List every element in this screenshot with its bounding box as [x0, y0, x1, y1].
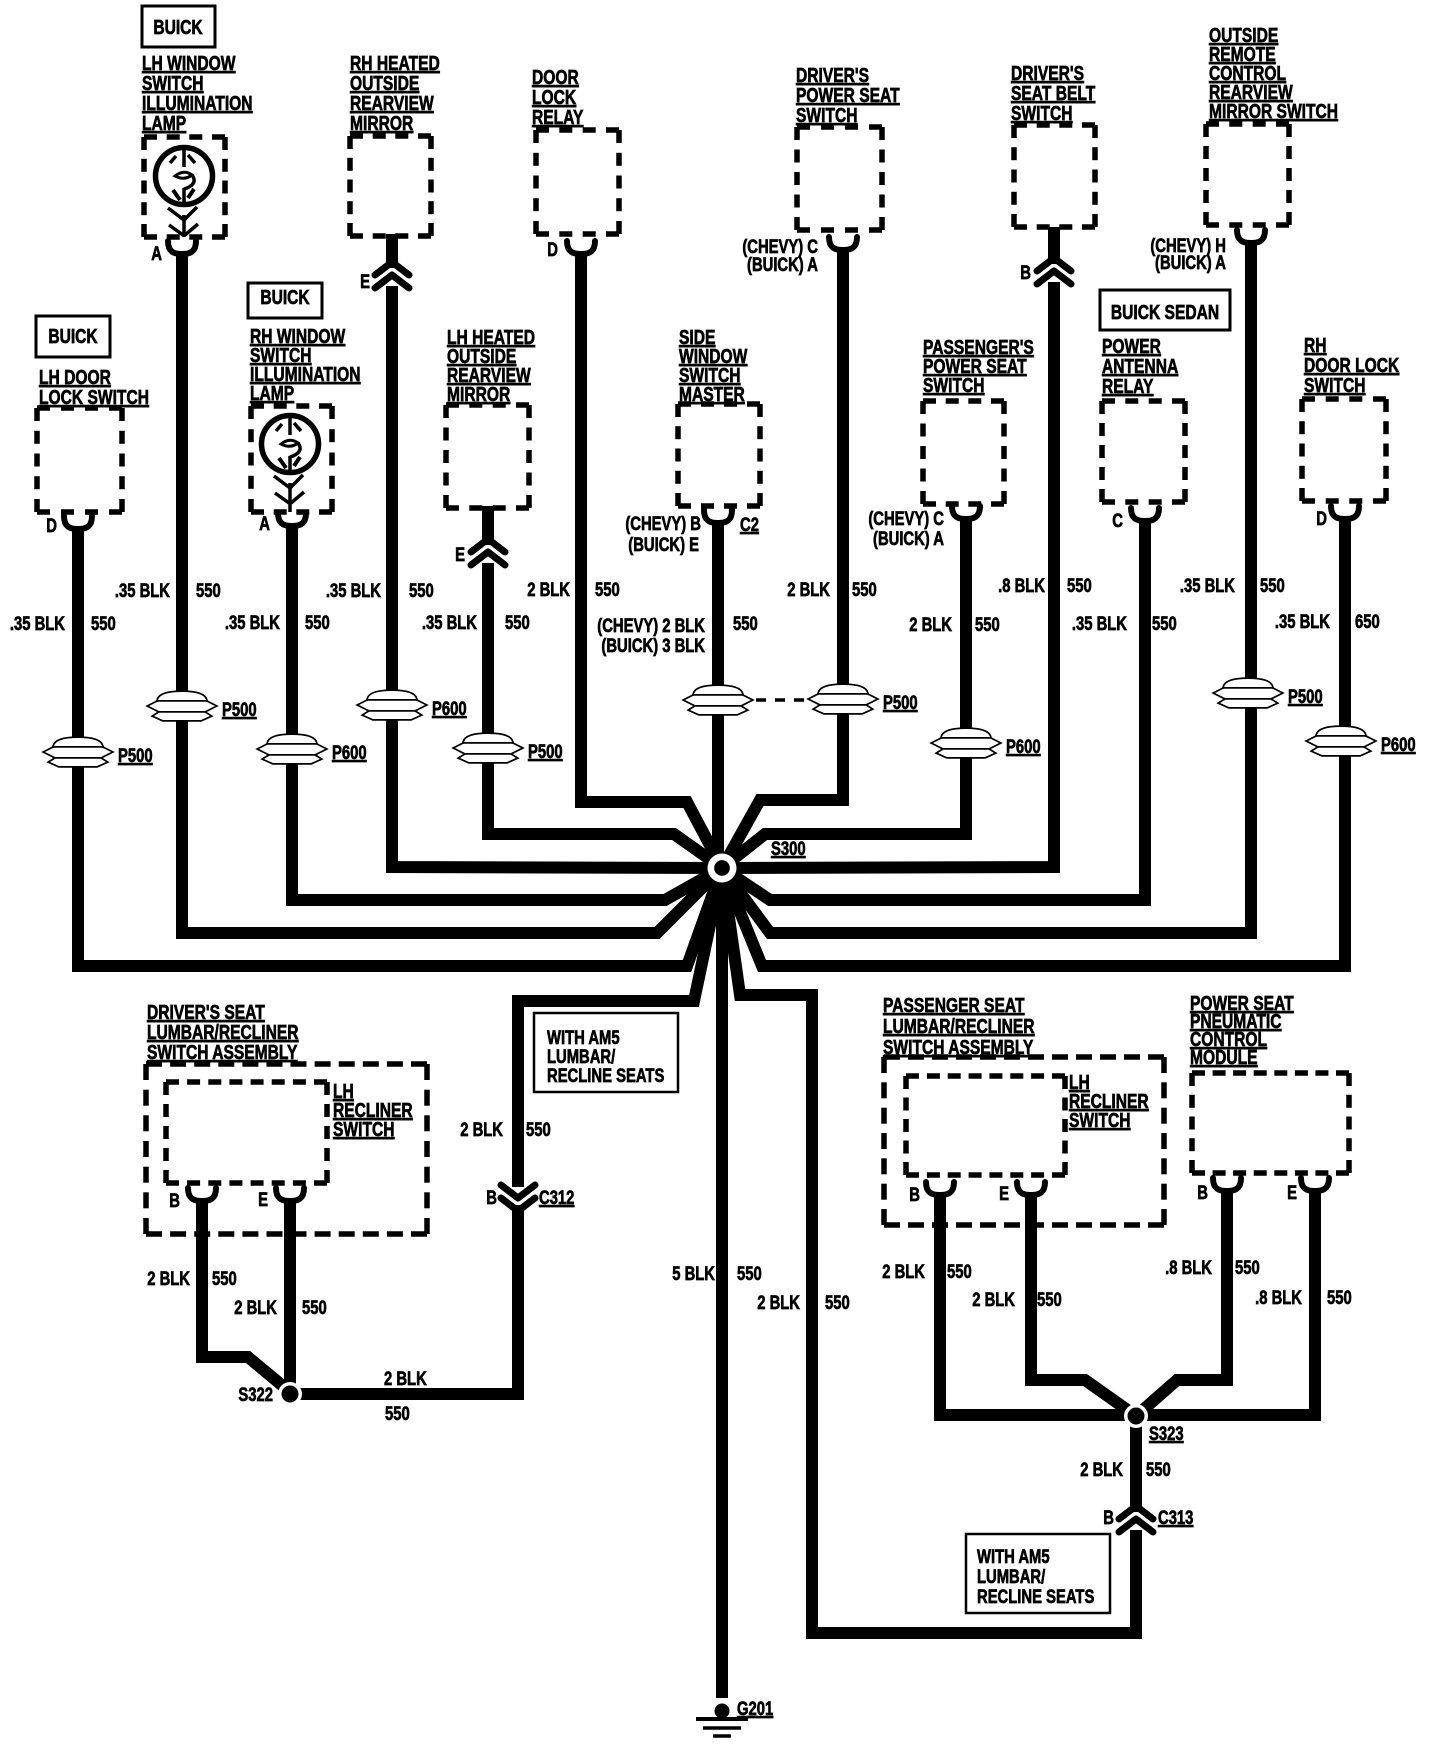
- svg-text:P500: P500: [1288, 686, 1323, 707]
- svg-text:550: 550: [91, 613, 116, 634]
- svg-text:RH: RH: [1304, 334, 1327, 356]
- svg-text:P600: P600: [1381, 734, 1416, 755]
- svg-text:P500: P500: [222, 699, 257, 720]
- svg-text:WITH AM5: WITH AM5: [977, 1546, 1050, 1567]
- svg-text:550: 550: [947, 1261, 972, 1282]
- svg-text:.35 BLK: .35 BLK: [10, 613, 66, 634]
- svg-text:C2: C2: [740, 514, 759, 535]
- svg-text:RECLINE SEATS: RECLINE SEATS: [977, 1586, 1094, 1607]
- svg-text:(BUICK) 3 BLK: (BUICK) 3 BLK: [601, 635, 705, 656]
- svg-text:DRIVER'S: DRIVER'S: [796, 64, 869, 86]
- svg-text:MIRROR: MIRROR: [350, 112, 413, 134]
- svg-text:2 BLK: 2 BLK: [972, 1289, 1015, 1310]
- svg-text:LH DOOR: LH DOOR: [39, 366, 111, 388]
- svg-text:2 BLK: 2 BLK: [882, 1261, 925, 1282]
- svg-text:A: A: [259, 513, 270, 534]
- svg-text:.35 BLK: .35 BLK: [1275, 611, 1331, 632]
- svg-text:A: A: [151, 243, 162, 264]
- svg-text:LAMP: LAMP: [142, 112, 186, 134]
- svg-text:BUICK: BUICK: [153, 16, 202, 38]
- svg-text:550: 550: [1260, 575, 1285, 596]
- svg-text:C: C: [1112, 510, 1123, 531]
- svg-text:B: B: [1020, 262, 1031, 283]
- svg-text:B: B: [909, 1184, 920, 1205]
- svg-text:DRIVER'S SEAT: DRIVER'S SEAT: [147, 1001, 265, 1023]
- svg-text:550: 550: [1152, 613, 1177, 634]
- svg-text:OUTSIDE: OUTSIDE: [350, 72, 419, 94]
- svg-text:MASTER: MASTER: [679, 383, 745, 405]
- svg-text:E: E: [258, 1189, 268, 1210]
- svg-text:SWITCH: SWITCH: [1069, 1109, 1130, 1131]
- svg-text:P600: P600: [332, 742, 367, 763]
- svg-text:BUICK: BUICK: [260, 286, 309, 308]
- svg-text:B: B: [1103, 1507, 1114, 1528]
- svg-text:POWER: POWER: [1102, 335, 1161, 357]
- svg-text:BUICK: BUICK: [48, 325, 97, 347]
- svg-text:2 BLK: 2 BLK: [460, 1119, 503, 1140]
- svg-text:E: E: [455, 544, 465, 565]
- svg-text:2 BLK: 2 BLK: [1080, 1459, 1123, 1480]
- svg-text:S300: S300: [771, 838, 806, 859]
- svg-text:D: D: [547, 239, 558, 260]
- svg-text:.8 BLK: .8 BLK: [1165, 1257, 1212, 1278]
- svg-text:.35 BLK: .35 BLK: [115, 580, 171, 601]
- svg-text:550: 550: [825, 1292, 850, 1313]
- svg-text:LUMBAR/RECLINER: LUMBAR/RECLINER: [147, 1021, 299, 1043]
- svg-text:2 BLK: 2 BLK: [234, 1297, 277, 1318]
- svg-text:550: 550: [1037, 1289, 1062, 1310]
- svg-text:550: 550: [305, 612, 330, 633]
- svg-text:550: 550: [737, 1263, 762, 1284]
- svg-text:(CHEVY) 2 BLK: (CHEVY) 2 BLK: [597, 615, 705, 636]
- svg-text:D: D: [46, 515, 57, 536]
- svg-text:550: 550: [1146, 1459, 1171, 1480]
- svg-text:SWITCH: SWITCH: [796, 104, 857, 126]
- svg-text:P500: P500: [528, 741, 563, 762]
- svg-text:550: 550: [1067, 575, 1092, 596]
- svg-text:SWITCH: SWITCH: [923, 374, 984, 396]
- svg-text:2 BLK: 2 BLK: [147, 1268, 190, 1289]
- svg-text:S322: S322: [238, 1384, 273, 1405]
- svg-text:550: 550: [595, 579, 620, 600]
- svg-text:PASSENGER SEAT: PASSENGER SEAT: [883, 994, 1025, 1016]
- svg-text:(BUICK) A: (BUICK) A: [873, 528, 944, 549]
- svg-text:550: 550: [1235, 1257, 1260, 1278]
- svg-text:2 BLK: 2 BLK: [757, 1292, 800, 1313]
- svg-text:DRIVER'S: DRIVER'S: [1011, 62, 1084, 84]
- svg-text:B: B: [1197, 1182, 1208, 1203]
- svg-text:REARVIEW: REARVIEW: [350, 92, 434, 114]
- svg-text:550: 550: [526, 1119, 551, 1140]
- svg-text:B: B: [486, 1187, 497, 1208]
- svg-text:SWITCH ASSEMBLY: SWITCH ASSEMBLY: [883, 1036, 1033, 1058]
- svg-text:SWITCH: SWITCH: [1011, 102, 1072, 124]
- svg-text:SWITCH: SWITCH: [333, 1118, 394, 1140]
- svg-text:(CHEVY) C: (CHEVY) C: [868, 508, 944, 529]
- svg-text:MIRROR: MIRROR: [447, 383, 510, 405]
- svg-text:MIRROR SWITCH: MIRROR SWITCH: [1209, 100, 1338, 122]
- svg-text:550: 550: [409, 580, 434, 601]
- svg-text:P500: P500: [883, 692, 918, 713]
- svg-text:550: 550: [1327, 1287, 1352, 1308]
- svg-text:E: E: [360, 271, 370, 292]
- svg-text:ILLUMINATION: ILLUMINATION: [142, 92, 253, 114]
- svg-text:SWITCH: SWITCH: [1304, 374, 1365, 396]
- svg-text:(BUICK) E: (BUICK) E: [628, 534, 699, 555]
- svg-text:E: E: [1287, 1182, 1297, 1203]
- svg-text:E: E: [999, 1183, 1009, 1204]
- svg-text:.35 BLK: .35 BLK: [225, 612, 281, 633]
- svg-text:650: 650: [1355, 611, 1380, 632]
- svg-text:(CHEVY) B: (CHEVY) B: [625, 513, 701, 534]
- svg-text:5 BLK: 5 BLK: [672, 1263, 715, 1284]
- svg-text:SEAT BELT: SEAT BELT: [1011, 82, 1095, 104]
- svg-text:550: 550: [975, 614, 1000, 635]
- svg-text:.35 BLK: .35 BLK: [422, 612, 478, 633]
- svg-text:RH HEATED: RH HEATED: [350, 52, 440, 74]
- svg-text:LUMBAR/: LUMBAR/: [977, 1566, 1045, 1587]
- svg-text:LUMBAR/RECLINER: LUMBAR/RECLINER: [883, 1015, 1035, 1037]
- svg-text:SWITCH ASSEMBLY: SWITCH ASSEMBLY: [147, 1041, 297, 1063]
- svg-text:RELAY: RELAY: [532, 106, 583, 128]
- svg-text:LOCK: LOCK: [532, 86, 576, 108]
- svg-text:G201: G201: [737, 1698, 773, 1719]
- svg-text:550: 550: [302, 1297, 327, 1318]
- svg-text:DOOR LOCK: DOOR LOCK: [1304, 354, 1399, 376]
- svg-text:(BUICK) A: (BUICK) A: [1155, 252, 1226, 273]
- svg-text:SWITCH: SWITCH: [142, 72, 203, 94]
- svg-text:550: 550: [212, 1268, 237, 1289]
- svg-text:.35 BLK: .35 BLK: [1180, 575, 1236, 596]
- svg-text:.8 BLK: .8 BLK: [1255, 1287, 1302, 1308]
- svg-text:.35 BLK: .35 BLK: [1072, 613, 1128, 634]
- svg-text:550: 550: [733, 613, 758, 634]
- svg-text:LH WINDOW: LH WINDOW: [142, 52, 236, 74]
- svg-text:C312: C312: [539, 1187, 574, 1208]
- svg-text:P500: P500: [118, 745, 153, 766]
- svg-text:B: B: [169, 1190, 180, 1211]
- svg-text:550: 550: [385, 1403, 410, 1424]
- svg-text:2 BLK: 2 BLK: [787, 579, 830, 600]
- svg-text:(BUICK) A: (BUICK) A: [747, 254, 818, 275]
- svg-text:S323: S323: [1149, 1423, 1184, 1444]
- svg-text:C313: C313: [1158, 1507, 1193, 1528]
- svg-text:ANTENNA: ANTENNA: [1102, 355, 1178, 377]
- svg-text:P600: P600: [432, 698, 467, 719]
- svg-text:D: D: [1316, 508, 1327, 529]
- svg-text:RECLINE SEATS: RECLINE SEATS: [547, 1065, 664, 1086]
- svg-text:2 BLK: 2 BLK: [527, 579, 570, 600]
- svg-text:2 BLK: 2 BLK: [909, 614, 952, 635]
- svg-text:LOCK SWITCH: LOCK SWITCH: [39, 386, 149, 408]
- svg-text:550: 550: [505, 612, 530, 633]
- svg-text:550: 550: [852, 579, 877, 600]
- svg-text:2 BLK: 2 BLK: [384, 1368, 427, 1389]
- svg-text:POWER SEAT: POWER SEAT: [796, 84, 900, 106]
- svg-text:550: 550: [196, 580, 221, 601]
- svg-text:RELAY: RELAY: [1102, 375, 1153, 397]
- svg-text:.35 BLK: .35 BLK: [326, 580, 382, 601]
- svg-text:LAMP: LAMP: [250, 382, 294, 404]
- svg-text:.8 BLK: .8 BLK: [998, 575, 1045, 596]
- svg-text:MODULE: MODULE: [1190, 1046, 1258, 1068]
- svg-text:BUICK SEDAN: BUICK SEDAN: [1111, 301, 1219, 323]
- svg-text:DOOR: DOOR: [532, 66, 579, 88]
- svg-text:P600: P600: [1006, 736, 1041, 757]
